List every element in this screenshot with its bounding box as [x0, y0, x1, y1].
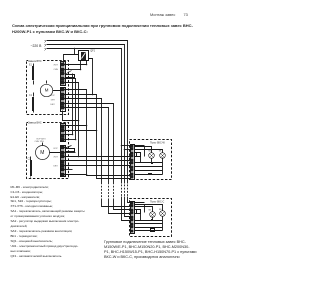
breaker QF1 — [79, 50, 96, 61]
page header — [0, 11, 200, 13]
wire z1 A3 down — [72, 74, 74, 135]
svg-text:КОР БЕЛ: КОР БЕЛ — [37, 138, 47, 140]
wire z1 B1 — [65, 90, 131, 176]
wire net3 — [47, 49, 122, 184]
ladder wires VKS-C — [135, 221, 163, 231]
pult VKS-W box — [130, 140, 172, 180]
wire z2 A4 tap — [65, 139, 76, 141]
svg-text:ЗЛН: ЗЛН — [51, 100, 56, 102]
switch mark — [151, 229, 155, 232]
pult VKS-C box — [130, 199, 172, 237]
component mark 1 — [151, 162, 153, 164]
thermostat SK1 — [65, 71, 72, 74]
svg-text:БЕЛ: БЕЛ — [54, 165, 59, 167]
component mark 2 — [148, 173, 152, 175]
svg-text:СИН: СИН — [54, 69, 59, 71]
wire L1 arrow — [45, 45, 47, 47]
svg-text:SB: SB — [148, 210, 151, 212]
wire z1 B2 — [65, 95, 131, 179]
wire QF1 output down 2 — [86, 61, 88, 65]
terminal block XT2 group A — [61, 124, 66, 142]
svg-text:Пульт ВКС-С: Пульт ВКС-С — [150, 201, 165, 204]
svg-text:С1: С1 — [29, 94, 33, 97]
wires z2 B rows to VKS-W strip — [65, 146, 72, 148]
motor M2 — [35, 138, 61, 159]
svg-text:QF1: QF1 — [90, 50, 95, 53]
component mark 3 — [151, 219, 153, 221]
svg-text:~220 В: ~220 В — [31, 44, 43, 48]
legend text — [11, 185, 106, 259]
wire z1 B3 — [65, 99, 102, 183]
title — [12, 23, 196, 33]
svg-text:КОР: КОР — [51, 95, 56, 97]
wire z2 A2 to bus — [65, 130, 97, 132]
wire z1 A2 to bus — [65, 69, 81, 71]
switch SB2 — [137, 210, 141, 214]
svg-text:SB: SB — [159, 150, 162, 152]
terminal block XT1 group A — [61, 62, 66, 86]
switch SB1 — [137, 153, 141, 157]
zavesa box 1 — [27, 61, 69, 115]
svg-text:М: М — [45, 88, 49, 93]
wire net1 — [47, 41, 128, 184]
junction — [74, 48, 76, 50]
wire z1 strip bottom jumper — [63, 111, 79, 121]
wire stubs inside VKS-W — [135, 146, 145, 163]
motor M1 — [40, 81, 60, 97]
wire stubs inside VKS-C — [135, 203, 145, 221]
wire N arrow — [45, 41, 47, 43]
svg-text:СИН ЗЛН: СИН ЗЛН — [35, 141, 45, 143]
bus taps into strip — [122, 145, 131, 147]
wire L2 arrow — [45, 49, 47, 51]
wire branch to QF1 — [64, 49, 79, 63]
wire z1 B4 — [65, 104, 114, 183]
svg-text:ЖЛТ: ЖЛТ — [54, 65, 59, 67]
svg-text:М: М — [40, 150, 44, 156]
wire z2 A3 tap — [65, 134, 73, 136]
svg-text:Завеса ВНС: Завеса ВНС — [28, 121, 42, 124]
heater E1 — [29, 64, 34, 85]
terminal block XT2 group B — [61, 146, 66, 177]
svg-text:SB: SB — [148, 151, 151, 153]
wire z1 A5 down — [65, 83, 79, 157]
terminal strip VKS-C — [131, 202, 135, 234]
svg-text:Пульт ВКС-W: Пульт ВКС-W — [150, 142, 166, 145]
wire z1 B5 — [65, 108, 109, 183]
caption text — [104, 240, 199, 260]
lamp HL4 — [135, 205, 166, 217]
svg-text:БЕЛ: БЕЛ — [51, 104, 56, 106]
lamp HL2 — [135, 150, 166, 159]
wire net2 — [47, 45, 125, 184]
capacitor C2 — [28, 157, 33, 178]
lamp HL1 — [135, 147, 155, 159]
wire z1 A4 down — [65, 79, 76, 140]
wire QF1 output right — [89, 59, 93, 95]
terminal strip VKS-W — [131, 145, 135, 180]
ladder wires VKS-W — [135, 163, 163, 175]
terminal block XT1 group B — [61, 88, 66, 112]
wire z1 A1 to bus — [65, 64, 87, 66]
svg-text:ЖЛТ: ЖЛТ — [54, 157, 59, 159]
wire QF1 output down — [80, 61, 82, 70]
svg-text:Завеса ВНС: Завеса ВНС — [28, 60, 42, 63]
zavesa box 2 — [27, 123, 69, 179]
lamp HL3 — [135, 207, 156, 218]
svg-text:КОР: КОР — [54, 148, 59, 150]
wire z2 A1 to bus — [65, 125, 87, 127]
capacitor C1 — [29, 93, 34, 113]
